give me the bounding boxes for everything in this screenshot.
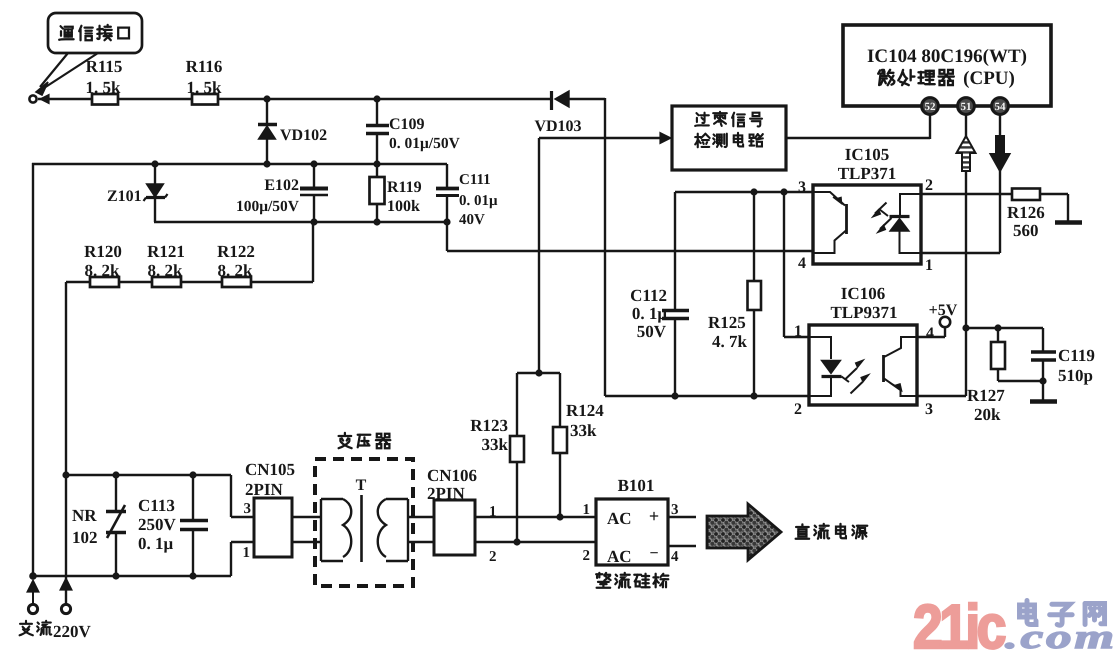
svg-text:1. 5k: 1. 5k [187,78,223,97]
svg-text:1: 1 [583,502,591,518]
svg-text:100k: 100k [387,198,420,215]
svg-text:3: 3 [671,502,679,518]
svg-text:250V: 250V [138,515,177,534]
wire: detector output to CPU [786,137,930,139]
junction C112 bottom [671,392,678,399]
svg-text:R115: R115 [86,57,123,76]
label 直流电源 [796,524,810,538]
ground (C119) [1030,399,1057,403]
junction VD102 bottom [263,160,270,167]
wire: riser to IC106 pin1 [783,192,785,337]
svg-text:50V: 50V [637,322,667,341]
diode VD103 [534,91,581,135]
junction R119 bottom [373,218,380,225]
terminal AC-2 [60,578,72,614]
DC output block arrow [707,504,781,560]
svg-text:C119: C119 [1058,346,1095,365]
bridge rectifier B101 [583,476,697,566]
junction R127 top [994,324,1001,331]
svg-text:1: 1 [243,545,251,561]
capacitor C112 [630,192,689,396]
arrowhead into terminal [40,95,49,104]
svg-text:T: T [356,477,367,494]
svg-text:4: 4 [671,549,679,565]
svg-text:Z101: Z101 [107,188,142,205]
junction C113 top [189,471,196,478]
junction at VD102 top [263,95,270,102]
svg-text:3: 3 [244,501,252,517]
svg-text:21ic: 21ic [913,593,1005,650]
svg-text:IC106: IC106 [841,284,885,303]
svg-text:4: 4 [798,255,806,272]
svg-text:100μ/50V: 100μ/50V [236,198,300,215]
junction R123 bottom [513,538,520,545]
svg-text:CN106: CN106 [427,466,477,485]
CPU pin circle 54 [992,98,1009,115]
svg-text:AC: AC [607,509,632,528]
junction C119 bottom [1039,377,1046,384]
svg-text:R121: R121 [147,242,185,261]
wire: filter top rail y475 [66,474,231,476]
svg-text:54: 54 [995,101,1007,113]
resistor R124 [553,373,604,517]
svg-text:0. 1μ: 0. 1μ [632,304,668,323]
wire: zero-cross sense vertical [538,138,540,373]
svg-text:33k: 33k [482,435,509,454]
junction AC2 to filter rail [62,471,69,478]
wire: bottom rail to IC106 pin2 [605,395,809,397]
watermark 电子网 [1020,601,1037,625]
resistor R123 [470,373,524,542]
junction R124 bottom [556,513,563,520]
svg-text:−: − [649,545,658,562]
wire: R120-R122 chain [66,281,313,283]
resistor R120 [84,242,122,287]
junction C111 bottom [443,218,450,225]
svg-text:2: 2 [794,401,802,418]
power +5V terminal [917,302,958,337]
junction R125 bottom [750,392,757,399]
CPU pin circle 52 [922,98,939,115]
svg-text:R122: R122 [217,242,255,261]
resistor R115 [86,57,123,105]
svg-text:IC104 80C196(WT): IC104 80C196(WT) [867,46,1027,67]
junction R119 top [373,160,380,167]
svg-text:510p: 510p [1058,366,1093,385]
svg-text:IC105: IC105 [845,145,889,164]
svg-text:8. 2k: 8. 2k [85,261,121,280]
wire: opto IC106 output to CPU [965,171,967,396]
svg-text:0. 01μ/50V: 0. 01μ/50V [389,135,461,152]
junction Z101 top [151,160,158,167]
wire: node to R127/C119 [966,327,1043,329]
svg-text:3: 3 [798,179,806,196]
wire: IC105 pin2 to R126 [921,193,1012,195]
svg-text:4: 4 [926,325,934,342]
svg-text:2: 2 [489,549,497,565]
svg-text:2PIN: 2PIN [427,484,466,503]
svg-text:8. 2k: 8. 2k [148,261,184,280]
connector CN105 [243,460,296,561]
junction NR bottom [112,572,119,579]
node: communication-interface terminal [29,95,36,102]
svg-text:TLP9371: TLP9371 [830,303,897,322]
resistor R127 [967,328,1043,424]
svg-text:20k: 20k [974,405,1001,424]
svg-text:C111: C111 [459,172,491,188]
junction R123/R124 top [535,369,542,376]
svg-text:0. 01μ: 0. 01μ [459,193,498,209]
svg-text:8. 2k: 8. 2k [218,261,254,280]
svg-text:B101: B101 [618,476,655,495]
capacitor E102 (electrolytic) [236,164,328,222]
junction C113 bottom [189,572,196,579]
optocoupler IC106 [809,325,917,405]
callout label 通信接口 with pointer [36,13,142,95]
svg-text:33k: 33k [570,421,597,440]
svg-text:2: 2 [583,548,591,564]
wire: top rail to VD103 [38,98,550,100]
svg-text:1: 1 [794,323,802,340]
wire: AC line-2 vertical [65,282,67,604]
capacitor C111 [436,164,498,251]
svg-text:E102: E102 [264,177,299,194]
resistor R121 [147,242,185,287]
wire: CPU output to IC105 pin1 [999,169,1001,253]
capacitor C113 [138,475,208,576]
resistor R119 [370,164,422,222]
svg-text:1. 5k: 1. 5k [86,78,122,97]
transformer T dashed box [315,459,413,586]
svg-text:R119: R119 [387,179,422,196]
resistor R125 [708,192,761,396]
svg-text:NR: NR [72,506,97,525]
label 交流220V [20,621,92,641]
svg-text:40V: 40V [459,212,485,228]
wire: IC105 pin4 rail [447,250,813,252]
junction R127 node [962,324,969,331]
junction IC106 pin1 riser top [780,188,787,195]
svg-text:R126: R126 [1007,203,1045,222]
svg-text:52: 52 [925,101,937,113]
svg-text:4. 7k: 4. 7k [712,332,748,351]
microprocessor IC104 box [843,25,1051,106]
label 整流硅桥 [596,573,610,588]
varistor NR [72,475,126,576]
zero-cross detector box [672,106,786,170]
resistor R116 [186,57,223,105]
zener Z101 [107,164,168,222]
svg-text:+: + [649,506,659,526]
svg-text:R116: R116 [186,57,223,76]
wire: filter bottom rail y576 [33,575,231,577]
svg-text:R120: R120 [84,242,122,261]
svg-text:2PIN: 2PIN [245,480,284,499]
junction left rail to bottom rail [29,572,37,580]
svg-text:TLP371: TLP371 [838,164,897,183]
capacitor C119 [1031,328,1095,400]
wire: left rail vertical [32,163,34,576]
svg-text:+5V: +5V [929,302,958,319]
signal arrow up (to CPU) [957,115,976,171]
junction E102 bottom [310,218,317,225]
junction R125 top [750,188,757,195]
signal arrow down (from CPU) [991,115,1010,171]
terminal AC-1 [27,580,39,614]
svg-text:AC: AC [607,547,632,566]
svg-text:560: 560 [1013,221,1039,240]
svg-text:R127: R127 [967,386,1005,405]
svg-text:VD103: VD103 [534,118,581,135]
svg-text:C112: C112 [630,286,667,305]
transformer secondary winding [378,499,434,561]
svg-text:C109: C109 [389,116,425,133]
diode VD102 [258,99,327,164]
svg-text:R124: R124 [566,401,604,420]
junction E102 top [310,160,317,167]
svg-text:(CPU): (CPU) [963,68,1015,89]
CPU pin circle 51 [958,98,975,115]
svg-text:102: 102 [72,528,98,547]
junction at C109 top [373,95,380,102]
wire: CN106 pin2 to B101 [475,541,596,543]
svg-text:1: 1 [925,257,933,274]
transformer primary winding [292,499,351,561]
wire: CN106 pin1 to B101 [475,516,596,518]
svg-text:.com: .com [1005,619,1117,650]
svg-text:R123: R123 [470,416,508,435]
svg-text:0. 1μ: 0. 1μ [138,534,174,553]
svg-text:51: 51 [961,101,972,113]
transformer core and T label [356,477,367,562]
svg-text:VD102: VD102 [280,127,327,144]
label 变压器 [339,433,352,448]
wire: rail y164 [32,163,447,165]
wire: rail y222 [154,221,447,223]
svg-text:C113: C113 [138,496,175,515]
wire: IC105 pin3 line [675,191,813,193]
wire: VD103 to IC106 pin2 (corner down) [568,98,605,100]
svg-text:2: 2 [925,177,933,194]
svg-text:CN105: CN105 [245,460,295,479]
resistor R122 [217,242,255,287]
capacitor C109 [366,99,461,164]
resistor R126 [1007,189,1068,241]
junction NR top [112,471,119,478]
ground (R126) [1055,220,1082,224]
connector CN106 [427,466,497,565]
svg-text:3: 3 [925,401,933,418]
optocoupler IC105 [813,185,921,264]
svg-text:220V: 220V [53,622,92,641]
svg-text:R125: R125 [708,313,746,332]
wire: into detector with arrowhead [539,137,662,139]
